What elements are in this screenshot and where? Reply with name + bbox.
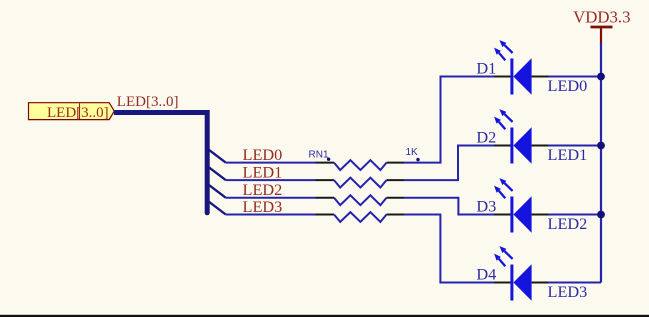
svg-text:LED1: LED1 (243, 162, 283, 181)
svg-text:VDD3.3: VDD3.3 (573, 8, 630, 27)
pin 1 dot of RN1 (327, 158, 330, 161)
wire from resistor B to LED D2 (404, 146, 494, 181)
svg-text:LED1: LED1 (548, 145, 588, 164)
resistor RN1 element B (row2) (316, 178, 405, 188)
bus entry row1 (208, 149, 226, 162)
wire LED2 net: bus entry to resistor (226, 197, 316, 199)
svg-text:LED[3..0]: LED[3..0] (47, 105, 109, 121)
svg-text:RN1: RN1 (309, 150, 329, 161)
junction at D2 (597, 142, 605, 150)
svg-text:LED0: LED0 (548, 76, 588, 95)
wire D1 cathode to rail (549, 76, 602, 78)
svg-text:LED[3..0]: LED[3..0] (117, 94, 179, 110)
svg-text:D1: D1 (476, 59, 496, 78)
bus (114, 113, 207, 213)
svg-text:D2: D2 (476, 128, 496, 147)
svg-text:1K: 1K (406, 147, 419, 158)
wire VDD rail (600, 43, 602, 283)
wire LED0 net: bus entry to resistor (226, 162, 316, 164)
svg-text:LED3: LED3 (548, 282, 588, 301)
svg-text:LED2: LED2 (548, 214, 588, 233)
bus entry row4 (208, 201, 226, 214)
wire D4 cathode to rail (549, 282, 602, 284)
resistor RN1 element C (row3) (316, 195, 405, 205)
junction at D3 (597, 211, 605, 219)
svg-text:LED0: LED0 (243, 145, 283, 164)
LED D2 (494, 109, 549, 164)
resistor RN1 element A (row1) (316, 160, 405, 170)
bus entry row2 (208, 167, 226, 180)
wire LED3 net: bus entry to resistor (226, 214, 316, 216)
wire from resistor C to LED D3 (404, 198, 494, 215)
resistor RN1 element D (row4) (316, 212, 405, 222)
LED D4 (494, 246, 549, 301)
wire from resistor D to LED D4 (404, 215, 494, 283)
wire D2 cathode to rail (549, 145, 602, 147)
wire D3 cathode to rail (549, 214, 602, 216)
LED D3 (494, 178, 549, 233)
wire LED1 net: bus entry to resistor (226, 179, 316, 181)
port LED[3..0] (29, 103, 115, 122)
svg-text:D4: D4 (476, 265, 496, 284)
LED D1 (494, 40, 549, 95)
sheet border line (bottom) (0, 315, 649, 317)
junction at D1 (597, 73, 605, 81)
bus entry row3 (208, 184, 226, 197)
power port VDD3.3 (573, 8, 630, 45)
svg-text:D3: D3 (476, 197, 496, 216)
pin 2 dot of RN1 (416, 158, 419, 161)
svg-text:LED3: LED3 (243, 197, 283, 216)
wire from resistor A to LED D1 (404, 77, 494, 163)
